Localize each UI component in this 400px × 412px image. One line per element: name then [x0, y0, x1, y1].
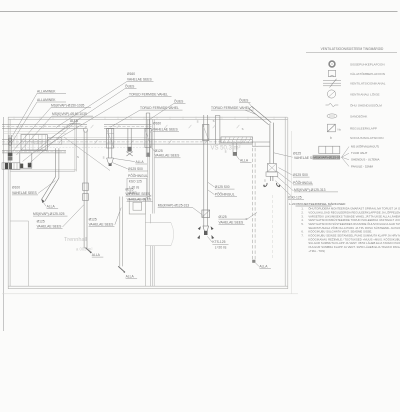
label POHINGUL V4: [215, 192, 237, 197]
svg-text:VARSETEKI LIIKUMISEKS TUBADE V: VARSETEKI LIIKUMISEKS TUBADE VAHEL JÄTTA…: [308, 214, 400, 218]
label MS(KVAP)-O125-313 right: [294, 188, 338, 192]
label O160 V1: [129, 191, 137, 195]
svg-text:S: S: [264, 178, 266, 182]
svg-text:VAHELAE SEES: VAHELAE SEES: [219, 220, 244, 224]
svg-text:KSO 125: KSO 125: [129, 180, 142, 184]
duct run C to AHU: [2, 151, 66, 153]
dividing wall right face: [153, 119, 155, 286]
svg-text:Ø125 S00: Ø125 S00: [128, 167, 143, 171]
silencer on V4 top: [203, 124, 209, 140]
duct V2: [128, 129, 131, 148]
fan-out note 4: [351, 164, 374, 168]
V7 junction damper circle: [83, 128, 87, 132]
dividing wall left face: [148, 119, 150, 199]
svg-text:S: S: [77, 155, 79, 159]
svg-text:Trennhall: Trennhall: [64, 237, 87, 243]
duct dimension ticks: [19, 125, 244, 144]
faint parallel line duct B upper: [56, 137, 147, 139]
leaders from top-left stack to AHU: [11, 93, 74, 164]
svg-text:VAHELAE SEES: VAHELAE SEES: [12, 191, 37, 195]
V9 dampers: [9, 138, 12, 145]
roof hatch symbol: [129, 199, 145, 214]
label O125 x121: [89, 217, 97, 221]
svg-text:ÕUES: ÕUES: [239, 98, 249, 103]
svg-text:PÕÕHINGUL: PÕÕHINGUL: [293, 180, 313, 185]
room area text: [76, 247, 93, 252]
svg-text:ÜHENDUS - ULTEMA: ÜHENDUS - ULTEMA: [351, 158, 379, 162]
silencer on V5: [267, 164, 276, 172]
label ALLA V1: [136, 160, 148, 164]
legend duct section symbol: [327, 90, 335, 98]
svg-text:VENTKANALI LÕIGE: VENTKANALI LÕIGE: [350, 91, 380, 96]
AHU extra faint lines: [4, 131, 66, 148]
V5 grille arrows: [263, 183, 280, 187]
svg-text:VAHELAE SEES: VAHELAE SEES: [127, 198, 152, 202]
svg-text:ALLA: ALLA: [126, 274, 135, 278]
leader KTS: [207, 236, 212, 242]
V5 neck: [271, 176, 273, 181]
svg-text:ÕUES: ÕUES: [174, 98, 184, 103]
label ALLAMINEK 1: [37, 89, 66, 93]
svg-text:SOOJUSISOLATSIOON: SOOJUSISOLATSIOON: [350, 136, 383, 140]
label KSO 125: [129, 180, 142, 184]
svg-text:PÕÕHINGUL: PÕÕHINGUL: [128, 173, 148, 178]
label TORUD FERMIDE VAHEL stack2: [140, 106, 183, 110]
svg-text:4.: 4.: [301, 218, 303, 222]
label VAHELAE SEES V4: [219, 220, 245, 224]
svg-text:+TMA - TON): +TMA - TON): [308, 249, 325, 253]
svg-text:VÄLJATÕMBEPLAFOON: VÄLJATÕMBEPLAFOON: [350, 71, 385, 76]
label VAHELAE SEES O100: [12, 191, 38, 195]
svg-text:ALLAMINEK: ALLAMINEK: [37, 98, 56, 102]
svg-text:PÕÕHINGUL: PÕÕHINGUL: [215, 192, 235, 197]
legend duct label: [350, 81, 386, 85]
label VAHELAE SEES V1: [127, 198, 153, 202]
svg-text:MS(KVAP)-Ø150-1035: MS(KVAP)-Ø150-1035: [51, 103, 84, 107]
V9 dark boxes: [8, 153, 13, 161]
svg-text:KÖÖGIKUBU SEINSE SEITAMISEL PU: KÖÖGIKUBU SEINSE SEITAMISEL PUHE SUMMUTA…: [308, 234, 400, 238]
label KSO-125 right: [288, 195, 304, 199]
faint offset line right: [290, 131, 292, 294]
leader to V1 cone: [64, 137, 110, 171]
top wall grid ticks: [14, 117, 274, 120]
svg-text:SULGUR SUMMUTA KLAPP JA VENT.: SULGUR SUMMUTA KLAPP JA VENT. 35/50 LÄHE…: [308, 241, 400, 245]
V7 elbow down: [86, 248, 92, 254]
leader from duct to highlighted label: [274, 153, 293, 157]
svg-text:ÕUES: ÕUES: [125, 84, 135, 89]
silencer on duct B: [221, 137, 253, 143]
silencer pair on V7: [83, 183, 89, 200]
door leaf and swing: [145, 223, 173, 246]
svg-text:Ø125 S00: Ø125 S00: [215, 185, 230, 189]
notes list: [301, 206, 400, 253]
V1 data box: [127, 178, 147, 196]
svg-text:ALLA: ALLA: [259, 265, 268, 269]
V8 elbow diagonal: [41, 177, 59, 204]
AHU main box: [21, 135, 62, 151]
svg-text:Ø125: Ø125: [155, 149, 163, 153]
leader MS313: [193, 208, 204, 216]
leader from duct B to V5: [258, 145, 270, 147]
V2 dark diffuser: [126, 147, 132, 156]
svg-text:VAHELAE SEES: VAHELAE SEES: [127, 77, 152, 81]
AHU dark corner box: [28, 163, 31, 168]
svg-text:Ø125: Ø125: [89, 217, 97, 221]
svg-text:ALLAMINEK: ALLAMINEK: [37, 89, 56, 93]
svg-text:ÕHU ÜHENDUSSÕLM: ÕHU ÜHENDUSSÕLM: [350, 102, 382, 107]
svg-text:ALLA: ALLA: [70, 119, 79, 123]
svg-text:a 005 m²: a 005 m²: [76, 247, 93, 252]
svg-text:TORUD FERMIDE VAHEL: TORUD FERMIDE VAHEL: [129, 93, 168, 97]
svg-text:S: S: [242, 127, 244, 131]
label MS(KVAP)-O125-313 plan: [158, 203, 193, 207]
label VAHELAE SEES wall mid: [125, 192, 151, 196]
legend supply diffuser label: [350, 62, 385, 66]
lower faint page line: [2, 293, 298, 295]
V4 diffuser arrows: [197, 226, 214, 239]
fan-out leader lines: [342, 147, 350, 167]
legend title VENTILATSIOONISUSTEEM TINGMARGID: [306, 47, 397, 53]
legend exhaust valve label: [350, 71, 385, 76]
svg-text:MS(KVAP)-Ø125-03: MS(KVAP)-Ø125-03: [313, 156, 340, 160]
duct V9: [9, 135, 11, 156]
AHU inner detail circles: [33, 139, 42, 144]
legend damper label: [350, 127, 377, 131]
label ALLA right room: [240, 158, 252, 162]
leader divider label: [150, 129, 153, 133]
leader O125 V4: [247, 212, 257, 219]
svg-text:TUUR VAHT: TUUR VAHT: [351, 151, 368, 155]
legend duct section label: [350, 91, 380, 96]
svg-text:ALLA: ALLA: [136, 160, 145, 164]
faint dashed line left room: [8, 147, 147, 149]
svg-text:VAHELAE SEES: VAHELAE SEES: [37, 225, 62, 229]
svg-text:5.: 5.: [301, 222, 303, 226]
svg-text:VAHELAE SEES: VAHELAE SEES: [153, 127, 178, 131]
label ALLA top: [70, 119, 81, 123]
svg-text:7.: 7.: [301, 234, 303, 238]
svg-text:6.: 6.: [301, 230, 303, 234]
svg-text:KTS-125: KTS-125: [212, 240, 225, 244]
label TORUD FERMIDE VAHEL stack1: [129, 93, 172, 97]
room name VS: [211, 146, 241, 152]
duct drop x121: [120, 197, 123, 267]
label VAHELAE SEES divider2: [155, 154, 181, 158]
leaders from right labels to diffuser: [275, 168, 293, 199]
room name Trennhall: [64, 237, 87, 243]
svg-text:ALLA: ALLA: [240, 158, 249, 162]
silencer on V3: [145, 129, 151, 148]
label VAHELAE SEES x121: [89, 222, 115, 226]
damper S marks: [77, 119, 266, 221]
leader ALLA bottom-left: [43, 201, 46, 206]
svg-text:2.: 2.: [301, 210, 303, 214]
leader O100: [38, 181, 55, 194]
svg-text:S: S: [225, 149, 227, 153]
leader bottom-left pair: [63, 205, 84, 227]
page left edge line: [3, 117, 5, 331]
label O125 S00 V4: [215, 185, 235, 189]
svg-text:S: S: [213, 119, 215, 123]
svg-text:PANULE - 52MM: PANULE - 52MM: [351, 164, 374, 168]
label TORUD FERMIDE VAHEL stack3: [211, 106, 254, 110]
label VAHELAE SEES divider: [153, 127, 179, 131]
duct V3: [146, 113, 150, 157]
leader divider2: [150, 146, 155, 151]
leader wall mid: [143, 195, 151, 199]
label VAHELAE SEES stack1: [127, 77, 154, 81]
leader ALLA right room: [236, 155, 239, 159]
svg-text:Ø125 S00: Ø125 S00: [293, 173, 308, 177]
V6 end mark: [252, 260, 255, 263]
label ALLA x121: [126, 274, 138, 278]
leaders V4 labels: [208, 182, 214, 194]
svg-text:S: S: [246, 217, 248, 221]
V1 label leaders: [112, 158, 134, 168]
legend insulation label: [350, 136, 383, 140]
silencer on V1: [107, 129, 114, 148]
faint shaft line: [272, 195, 274, 260]
label ALLAMINEK 2: [37, 98, 66, 102]
svg-text:KSO-125: KSO-125: [288, 195, 302, 199]
outer wall right: [285, 117, 288, 289]
V3 end mark: [147, 153, 150, 157]
duct run B edges: [2, 140, 270, 147]
svg-text:MS(KVAP)-Ø125-313: MS(KVAP)-Ø125-313: [294, 188, 326, 192]
svg-text:VENTILATSIOONISÜSTEEMIDE TORUD: VENTILATSIOONISÜSTEEMIDE TORUD ISOLEERID…: [308, 218, 400, 222]
duct V7: [84, 131, 87, 249]
legend insulation symbol: [330, 136, 332, 140]
label O125 S00 V1: [128, 167, 148, 171]
svg-text:MS (KÕRVALMAJUT): MS (KÕRVALMAJUT): [351, 144, 379, 149]
duct C centerline: [2, 151, 66, 153]
elbow x121 duct: [118, 266, 125, 273]
legend duct symbol: [323, 79, 341, 88]
legend damper symbol: [327, 124, 341, 132]
tech room wall: [10, 119, 76, 171]
label VAHELAE SEES bottom-left: [37, 225, 63, 229]
AHU lower box: [20, 153, 32, 168]
svg-text:Ø125: Ø125: [37, 220, 45, 224]
svg-text:Ø125: Ø125: [219, 215, 227, 219]
outer wall top: [8, 117, 287, 119]
legend flex connection label: [350, 102, 382, 107]
leader x121: [115, 208, 121, 225]
fan-out note 3: [351, 158, 379, 162]
legend silencer symbol: [327, 114, 337, 118]
legend flex connection symbol: [326, 103, 339, 107]
fan-out note 1: [351, 144, 379, 149]
label OUES stack3: [239, 98, 251, 103]
AHU faint label: [31, 142, 42, 146]
outer wall bottom: [8, 286, 288, 289]
duct V5: [270, 123, 274, 164]
outer wall left: [8, 117, 10, 289]
svg-text:3.: 3.: [301, 214, 303, 218]
svg-text:L=20 l/s: L=20 l/s: [215, 245, 227, 249]
diagonal roof duct: [249, 106, 271, 124]
label ALLA bottom-left: [47, 205, 59, 209]
label D125 S00: [293, 173, 310, 177]
label POHINGUL right: [293, 180, 313, 185]
duct header centerline: [104, 125, 152, 127]
V4 diffuser cone: [203, 226, 209, 235]
label O160 divider: [153, 121, 161, 125]
svg-text:ALLA: ALLA: [47, 205, 56, 209]
svg-text:REGULEERKLAPP: REGULEERKLAPP: [350, 127, 377, 131]
interior wall below hatch: [145, 214, 150, 286]
svg-text:OULGUR SUMBRA KLAPP JA VENT. 3: OULGUR SUMBRA KLAPP JA VENT. 30/50 LÄHEB…: [308, 245, 400, 249]
duct header V1-V3 edges: [104, 124, 152, 128]
svg-text:No: No: [338, 127, 342, 131]
duct run A centerline: [2, 125, 87, 127]
label O125 V4: [219, 215, 248, 219]
label ALLA V7: [92, 253, 104, 257]
label O100: [12, 186, 20, 190]
highlighted code MS(KVAP)-O125-03: [313, 155, 341, 160]
label KTS-125: [212, 240, 228, 244]
svg-text:Ø125: Ø125: [125, 187, 133, 191]
svg-text:VAHELAE SEES: VAHELAE SEES: [89, 222, 114, 226]
svg-text:ALLA: ALLA: [92, 253, 101, 257]
duct run B centerline: [2, 141, 252, 143]
svg-text:1.: 1.: [301, 207, 303, 211]
svg-text:MS(KVAP)-Ø125-025: MS(KVAP)-Ø125-025: [33, 212, 65, 216]
label OUES stack2: [174, 98, 186, 103]
svg-text:VAHELAE SEES: VAHELAE SEES: [125, 192, 150, 196]
duct V4b riser: [215, 116, 220, 145]
svg-text:Ø160: Ø160: [127, 72, 135, 76]
duct V1: [108, 129, 112, 159]
svg-text:Ø160: Ø160: [153, 121, 161, 125]
svg-text:SISSEPUHKEPLAFOON: SISSEPUHKEPLAFOON: [350, 62, 385, 66]
page top border: [0, 11, 398, 13]
legend silencer label: [350, 113, 368, 118]
svg-text:S: S: [103, 156, 105, 160]
stair partition: [10, 221, 28, 286]
svg-text:TORUD FERMIDE VAHEL: TORUD FERMIDE VAHEL: [211, 106, 250, 110]
label OUES stack1: [125, 84, 137, 89]
label MS(KVAP)-O150-1035: [51, 103, 91, 107]
duct V8: [56, 148, 59, 178]
label MS(K)VNP-O160-1035: [52, 112, 93, 116]
svg-text:KÖÖGIKUBU SULGHATA VENT. SEADM: KÖÖGIKUBU SULGHATA VENT. SEADME SISSE.: [308, 230, 372, 234]
svg-text:T F+P F: T F+P F: [31, 142, 42, 146]
damper box on V4: [202, 210, 210, 217]
label O125 divider: [155, 149, 163, 153]
svg-text:b: b: [330, 136, 332, 140]
label L=20 ls: [215, 245, 227, 249]
leaders from middle stacks: [37, 81, 257, 151]
AHU grille strip: [2, 163, 20, 169]
label MS(KVAP)-O125-025: [33, 212, 68, 216]
V5 flange: [266, 172, 278, 176]
legend exhaust valve symbol: [328, 70, 335, 76]
svg-text:VAHELAE SEES: VAHELAE SEES: [155, 154, 180, 158]
label D125 vahelae sees: [293, 152, 319, 160]
svg-text:MS(K)VNP)-Ø160-1035: MS(K)VNP)-Ø160-1035: [52, 112, 87, 116]
duct run A edges: [2, 124, 87, 128]
callout cells box: [319, 146, 340, 153]
label O125 bottom-left: [37, 220, 45, 224]
label ALLA V6: [255, 263, 271, 269]
svg-text:MS(KVAP)-Ø125-313: MS(KVAP)-Ø125-313: [158, 203, 190, 207]
svg-text:Ø125: Ø125: [293, 152, 301, 156]
V1 diffuser cone: [107, 158, 114, 166]
stub duct near ALLA: [233, 143, 237, 156]
svg-text:TORUD FERMIDE VAHEL: TORUD FERMIDE VAHEL: [140, 106, 179, 110]
svg-text:S: S: [197, 119, 199, 123]
label O160 stack1: [127, 72, 135, 76]
duct V6 dashed: [252, 143, 255, 262]
svg-text:VENTILATSIOONIKANAL: VENTILATSIOONIKANAL: [350, 81, 386, 85]
label O125 wall mid: [125, 187, 133, 191]
legend supply diffuser symbol: [329, 61, 335, 67]
fan-out note 2: [351, 151, 368, 155]
label L-20 ls: [129, 185, 140, 189]
svg-text:SANDEÕHK: SANDEÕHK: [350, 113, 368, 118]
notes title: [289, 202, 346, 206]
label POHINGUL V1: [128, 173, 148, 178]
svg-text:L-20 PROJEKTEERIMISEL MÄRKUSED: L-20 PROJEKTEERIMISEL MÄRKUSED: [289, 202, 346, 206]
svg-text:Ø100: Ø100: [12, 186, 20, 190]
duct V4: [204, 115, 208, 226]
svg-text:VENTILATSIOONISÜSTEEM TINGMÄR: VENTILATSIOONISÜSTEEM TINGMÄRGID: [321, 47, 384, 51]
